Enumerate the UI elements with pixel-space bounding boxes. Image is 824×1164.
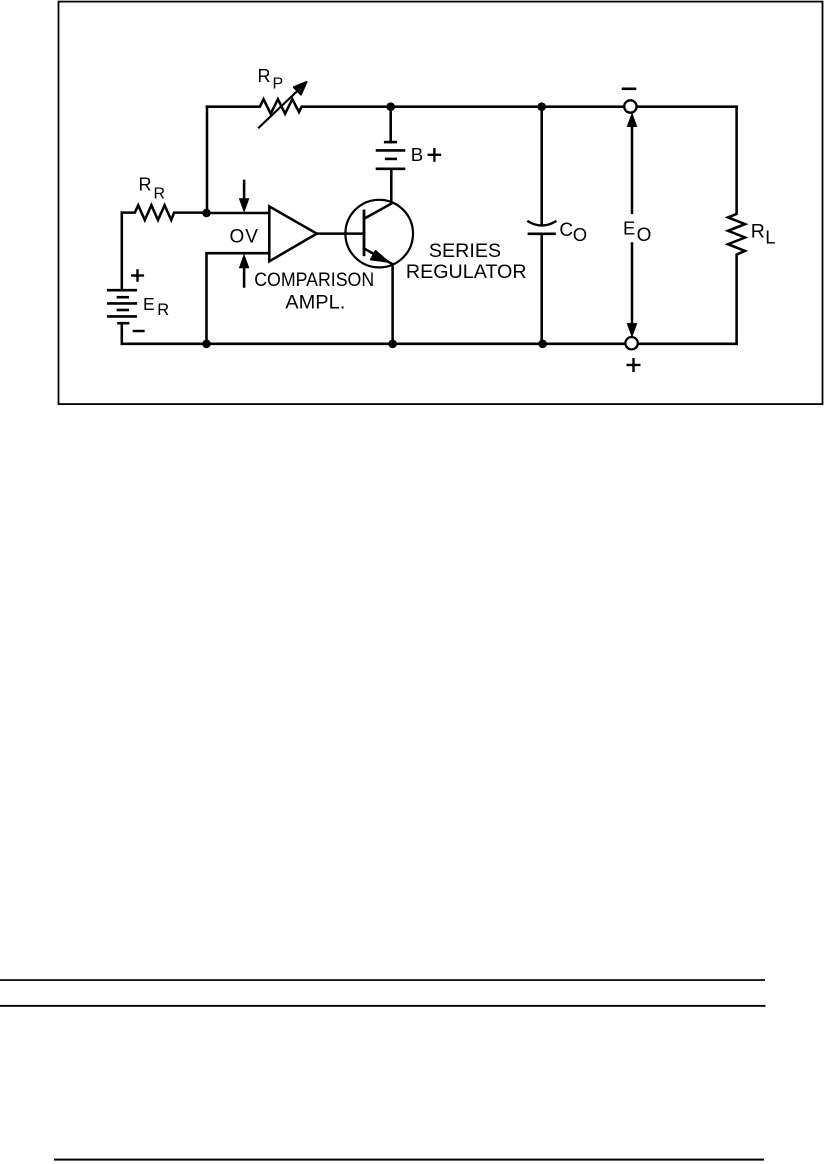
transistor emitter with arrow bbox=[364, 249, 393, 265]
transistor collector bbox=[364, 169, 391, 219]
transistor base bar bbox=[363, 211, 366, 255]
junction dot: bottom rail / feedback bbox=[202, 340, 211, 349]
svg-text:R: R bbox=[751, 221, 765, 243]
wire: bottom rail bbox=[122, 343, 737, 346]
svg-text:AMPL.: AMPL. bbox=[285, 292, 345, 313]
wire: ER top lead bbox=[121, 213, 124, 291]
capacitor CO straight plate bbox=[528, 233, 556, 236]
svg-text:B: B bbox=[411, 144, 423, 165]
svg-text:COMPARISON: COMPARISON bbox=[254, 270, 374, 291]
footer rule 3 (bottom) bbox=[54, 1159, 764, 1161]
transistor Q1 circle bbox=[345, 200, 413, 268]
battery ER plates bbox=[107, 290, 137, 323]
wire: amp output to transistor base bbox=[317, 232, 364, 235]
node: output terminal top (open circle) bbox=[624, 100, 636, 112]
svg-text:P: P bbox=[273, 76, 284, 93]
junction dot: bottom rail / CO bbox=[538, 340, 547, 349]
resistor RL (right branch) bbox=[728, 107, 745, 344]
footer rule 2 bbox=[0, 1005, 766, 1007]
wire: left vertical from top rail to Rr junction bbox=[206, 107, 209, 213]
wire: emitter to bottom rail bbox=[391, 264, 394, 344]
arrow into top input bbox=[243, 181, 246, 200]
junction dot: top rail / B+ bbox=[386, 102, 395, 111]
op-amp triangle (comparison amplifier) bbox=[269, 206, 317, 261]
svg-text:OV: OV bbox=[230, 226, 259, 247]
label - (ER) bbox=[133, 330, 145, 333]
svg-text:L: L bbox=[765, 226, 775, 247]
svg-text:R: R bbox=[258, 66, 272, 86]
label + (EO bottom) bbox=[627, 358, 641, 372]
capacitor CO curved plate bbox=[528, 222, 555, 226]
label - (EO top) bbox=[622, 88, 637, 91]
footer rule 1 bbox=[0, 979, 765, 981]
battery B+ plates bbox=[376, 142, 406, 169]
svg-text:R: R bbox=[154, 186, 166, 203]
EO arrow line upper segment bbox=[631, 126, 634, 213]
wire: amp top input bbox=[207, 212, 270, 215]
svg-text:E: E bbox=[623, 218, 635, 239]
wire: B+ branch from top rail bbox=[389, 107, 392, 142]
capacitor CO bottom wire bbox=[540, 234, 543, 344]
wire: top rail with Rp zigzag bbox=[207, 99, 737, 114]
svg-text:R: R bbox=[157, 301, 169, 319]
svg-text:REGULATOR: REGULATOR bbox=[406, 262, 527, 283]
svg-text:O: O bbox=[637, 225, 652, 246]
svg-text:SERIES: SERIES bbox=[429, 240, 501, 262]
wire: ER bottom lead to bottom rail bbox=[121, 323, 124, 344]
wire: amp feedback (bottom input) to bottom rail bbox=[207, 253, 270, 344]
resistor RR bbox=[122, 205, 207, 220]
svg-text:C: C bbox=[559, 220, 573, 241]
label + (ER) bbox=[131, 269, 144, 282]
arrow into bottom input bbox=[243, 268, 246, 287]
figure border box bbox=[59, 2, 823, 405]
potentiometer RP arrow (diagonal) bbox=[259, 88, 301, 128]
svg-text:E: E bbox=[143, 294, 155, 314]
junction dot: bottom rail / emitter bbox=[388, 340, 397, 349]
junction dot: Rr/Rp/amp bbox=[202, 209, 211, 218]
capacitor CO branch top wire bbox=[540, 107, 543, 225]
junction dot: top rail / CO bbox=[537, 102, 546, 111]
EO arrow line lower segment bbox=[631, 244, 634, 325]
svg-text:O: O bbox=[573, 224, 587, 245]
node: output terminal bottom (open circle) bbox=[625, 337, 637, 349]
svg-text:R: R bbox=[139, 175, 152, 195]
